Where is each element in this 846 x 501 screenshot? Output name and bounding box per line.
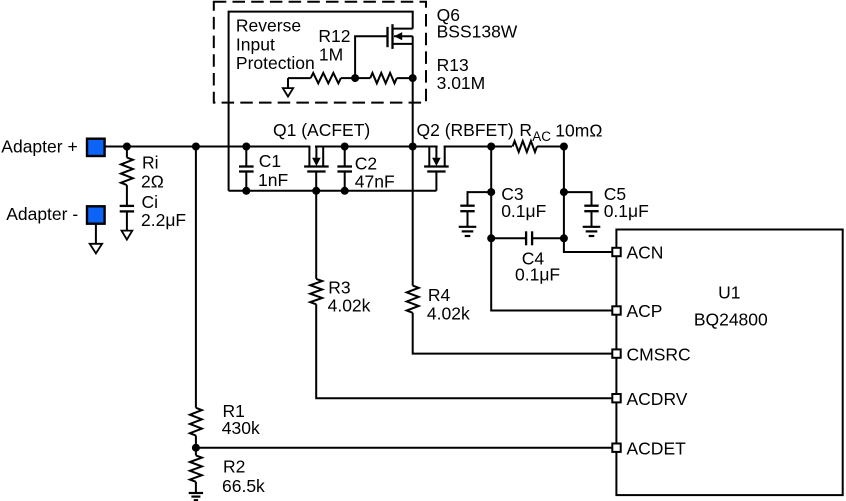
node C1 bottom	[242, 187, 250, 195]
label C5	[604, 184, 649, 221]
svg-text:Ri: Ri	[142, 153, 159, 173]
svg-text:Adapter -: Adapter -	[6, 204, 78, 224]
node RAC right	[560, 143, 568, 151]
label C1	[258, 151, 288, 190]
svg-text:0.1μF: 0.1μF	[515, 265, 560, 285]
svg-text:R: R	[519, 120, 532, 140]
reverse input protection label	[236, 15, 315, 73]
wire	[195, 147, 197, 408]
wire	[229, 12, 413, 191]
wire	[126, 147, 128, 158]
capacitor C3	[460, 206, 474, 227]
ground	[122, 231, 133, 240]
wire ACDRV net	[316, 304, 612, 398]
svg-text:R3: R3	[328, 278, 350, 298]
wire	[397, 77, 413, 79]
svg-text:R4: R4	[428, 285, 451, 305]
svg-text:1nF: 1nF	[258, 170, 288, 190]
label Ri	[141, 153, 164, 192]
svg-text:1M: 1M	[319, 44, 343, 64]
svg-text:R12: R12	[318, 26, 350, 46]
pin ACP	[612, 301, 662, 321]
node ACP branch	[487, 143, 495, 151]
wire	[355, 77, 370, 79]
svg-text:10mΩ: 10mΩ	[555, 120, 602, 140]
node C2 bottom	[341, 187, 349, 195]
ground	[287, 78, 289, 88]
wire	[126, 211, 128, 230]
svg-text:CMSRC: CMSRC	[627, 344, 691, 364]
svg-text:430k: 430k	[222, 418, 260, 438]
node Ri tap	[123, 143, 131, 151]
pin ACN	[612, 243, 663, 263]
svg-text:Input: Input	[236, 34, 275, 54]
wire	[468, 192, 492, 206]
resistor Ri	[121, 158, 133, 186]
wire gate rail	[229, 190, 437, 192]
node C5 tap	[560, 188, 568, 196]
label R13	[437, 55, 486, 93]
ground	[459, 226, 477, 228]
transistor Q2 (RBFET)	[424, 147, 449, 172]
wire	[341, 77, 355, 79]
label Ci	[141, 192, 186, 230]
node R1 branch	[192, 143, 200, 151]
capacitor C1	[239, 147, 254, 191]
wire CMSRC net	[413, 313, 613, 354]
transistor Q1 (ACFET)	[304, 147, 329, 172]
wire	[126, 185, 128, 206]
node R13 output	[409, 74, 417, 82]
svg-text:47nF: 47nF	[355, 172, 395, 192]
label R2	[222, 456, 265, 496]
svg-text:2Ω: 2Ω	[141, 171, 164, 191]
terminal Adapter-	[87, 206, 105, 223]
svg-text:Protection: Protection	[236, 53, 315, 73]
label U1	[694, 283, 768, 330]
wire ACP net	[491, 147, 612, 311]
wire ACDET net	[196, 447, 612, 449]
svg-text:Q1 (ACFET): Q1 (ACFET)	[273, 120, 370, 140]
label R4	[427, 285, 470, 324]
svg-text:BQ24800: BQ24800	[694, 309, 768, 329]
op-amp U1 box	[616, 230, 842, 496]
reverse input protection dashed box	[214, 2, 426, 103]
svg-text:C1: C1	[259, 151, 281, 171]
wire	[195, 436, 197, 456]
label R3	[328, 278, 371, 316]
svg-text:U1: U1	[718, 283, 740, 303]
label Q6	[437, 5, 518, 41]
svg-text:Q2 (RBFET): Q2 (RBFET)	[417, 120, 514, 140]
wire	[105, 146, 311, 148]
svg-text:66.5k: 66.5k	[222, 476, 265, 496]
wire	[195, 482, 197, 493]
pin ACDRV	[612, 389, 687, 409]
node R12-R13 junction	[351, 74, 359, 82]
resistor RAC	[513, 141, 537, 152]
label C3	[501, 184, 546, 221]
resistor R3	[310, 279, 322, 304]
resistor R4	[407, 286, 419, 313]
svg-text:C2: C2	[355, 154, 377, 174]
wire	[288, 77, 311, 79]
ground	[90, 244, 102, 254]
svg-text:Adapter +: Adapter +	[1, 137, 77, 157]
node C2 top	[341, 143, 349, 151]
capacitor C2	[337, 147, 352, 191]
label R1	[222, 401, 260, 438]
svg-text:2.2μF: 2.2μF	[141, 210, 186, 230]
svg-text:4.02k: 4.02k	[328, 296, 371, 316]
resistor R2	[190, 455, 202, 481]
terminal Adapter+	[87, 139, 105, 156]
svg-text:3.01M: 3.01M	[437, 73, 486, 93]
svg-text:0.1μF: 0.1μF	[604, 201, 649, 221]
ground	[583, 226, 601, 228]
svg-text:ACP: ACP	[627, 301, 663, 321]
wire	[444, 146, 512, 148]
node Q1 gate on rail	[312, 187, 320, 195]
label RAC	[519, 120, 602, 144]
svg-text:0.1μF: 0.1μF	[501, 201, 546, 221]
ground	[189, 492, 203, 494]
node C1 top	[242, 143, 250, 151]
resistor R12	[311, 73, 341, 83]
wire Q1 gate	[315, 172, 317, 279]
pin ACDET	[612, 438, 686, 458]
capacitor C4	[491, 231, 564, 245]
wire	[537, 146, 564, 148]
label C2	[355, 154, 395, 192]
node common source	[409, 143, 417, 151]
wire ACN net	[564, 147, 612, 253]
pin CMSRC	[612, 344, 690, 364]
svg-text:ACN: ACN	[627, 243, 664, 263]
capacitor C5	[584, 206, 598, 227]
svg-text:ACDRV: ACDRV	[627, 389, 688, 409]
svg-text:4.02k: 4.02k	[427, 304, 470, 324]
node ACDET divider	[192, 444, 200, 452]
transistor Q6	[388, 24, 413, 49]
svg-text:ACDET: ACDET	[627, 438, 687, 458]
wire	[564, 192, 592, 206]
node C4 right	[560, 234, 568, 242]
svg-text:AC: AC	[532, 129, 551, 144]
svg-text:Reverse: Reverse	[236, 15, 301, 35]
resistor R13	[370, 73, 397, 83]
label C4	[515, 248, 560, 284]
wire Q2 gate	[435, 172, 437, 191]
wire	[315, 146, 438, 148]
capacitor Ci	[120, 206, 134, 212]
label R12	[318, 26, 350, 64]
svg-text:R2: R2	[223, 456, 245, 476]
node C4 left	[487, 234, 495, 242]
svg-text:BSS138W: BSS138W	[437, 22, 518, 42]
resistor R1	[190, 408, 202, 436]
wire	[355, 36, 387, 78]
wire	[95, 224, 97, 244]
node C3 tap	[487, 188, 495, 196]
wire	[412, 44, 414, 286]
